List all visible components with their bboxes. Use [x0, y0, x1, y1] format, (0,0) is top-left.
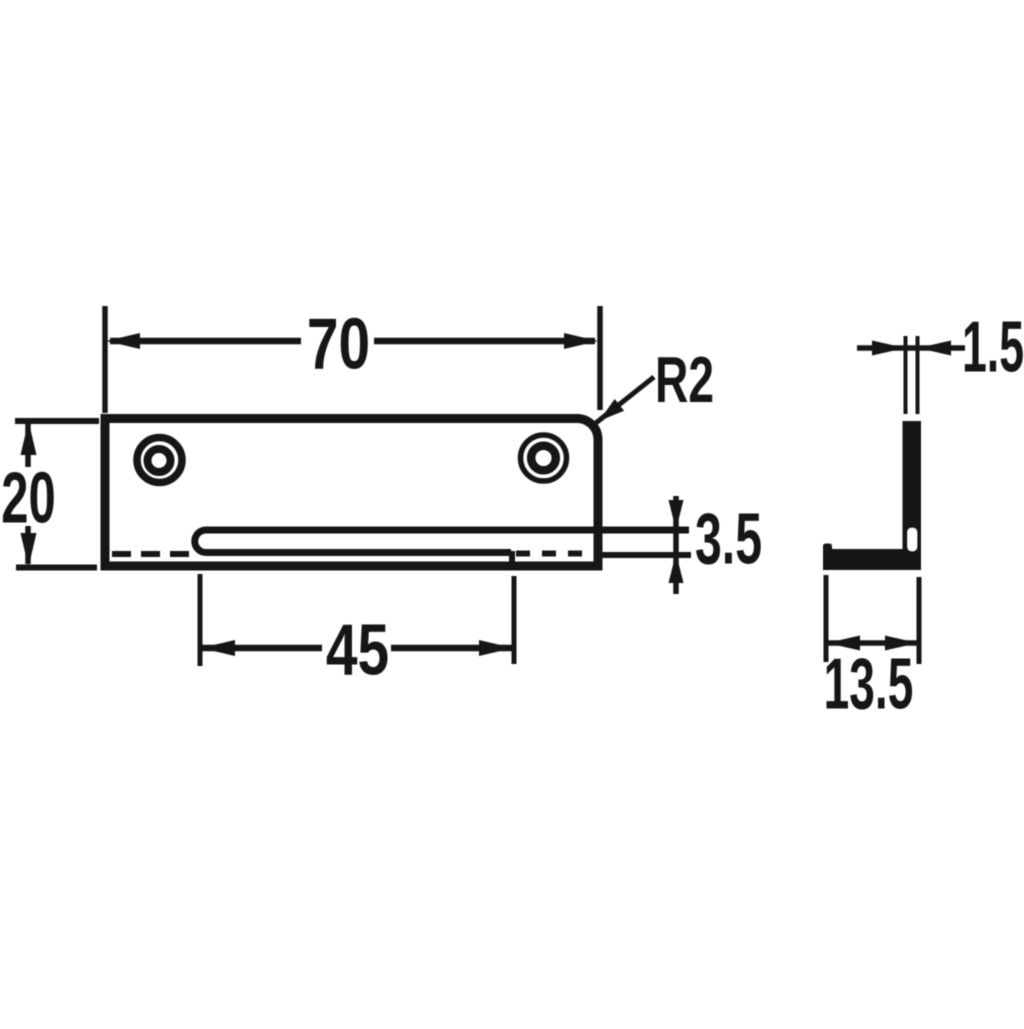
dim 3.5 extension line bottom — [598, 552, 691, 558]
dim 20 extension line top — [15, 418, 99, 424]
dim 45 arrowhead left — [201, 640, 235, 656]
dim 20 extension line bottom — [16, 565, 97, 571]
slot bottom line — [206, 549, 511, 556]
plate outline (front view, rounded corner top-right) — [105, 418, 598, 566]
dim 1.5 arrowhead right-pointing — [872, 341, 905, 356]
dim 20 arrowhead down — [21, 533, 37, 567]
dim 70 extension line left — [102, 306, 108, 413]
svg-text:R2: R2 — [655, 343, 714, 416]
slot right step — [509, 551, 515, 567]
dim 70 line — [110, 338, 595, 345]
svg-text:13.5: 13.5 — [824, 643, 914, 724]
hole left outer circle — [137, 438, 182, 483]
dim 70 extension line right — [597, 306, 603, 410]
dim 3.5 arrowhead up — [669, 553, 684, 583]
hidden bend line dashed right — [516, 551, 584, 557]
side view thickness extension lines — [906, 336, 918, 414]
dim 70 arrowhead right — [564, 333, 598, 349]
dim 1.5 arrowhead left-pointing — [918, 341, 951, 356]
side view slot notch (white) — [908, 528, 918, 551]
R2 leader line — [592, 377, 654, 426]
hole left inner ring — [148, 449, 171, 472]
slot left rounded end — [195, 530, 206, 553]
dim 3.5 arrowhead down — [669, 500, 684, 530]
dim 45 extension line right — [512, 576, 517, 664]
R2 leader arrowhead — [599, 399, 624, 421]
svg-text:1.5: 1.5 — [962, 307, 1024, 388]
hidden bend line dashed left — [112, 551, 197, 557]
hole right inner ring — [531, 446, 556, 471]
svg-text:70: 70 — [307, 303, 370, 384]
dim 13.5 arrowhead right — [885, 636, 918, 651]
dim 13.5 extension line left — [824, 575, 829, 662]
side view vertical leg (1.5 thick) — [903, 421, 922, 551]
dim 70 arrowhead left — [106, 333, 140, 349]
svg-text:45: 45 — [326, 609, 389, 690]
dim 20 arrowhead up — [21, 421, 37, 455]
dim 13.5 line — [827, 640, 918, 646]
dim 20 line — [25, 424, 31, 564]
svg-text:3.5: 3.5 — [695, 499, 762, 579]
side view flange left end tick — [823, 544, 832, 552]
svg-text:20: 20 — [1, 458, 55, 539]
dim 45 arrowhead right — [479, 640, 513, 656]
dim 3.5 arrow line vertical — [673, 496, 679, 594]
dim 1.5 line — [857, 345, 965, 351]
hole right outer circle — [521, 435, 567, 481]
side view bottom flange (13.5 long) — [823, 549, 921, 570]
dim 45 extension line left — [198, 574, 203, 666]
slot top line (extends right as 3.5 extension line) — [205, 527, 689, 534]
dim 13.5 arrowhead left — [827, 636, 860, 651]
dim 45 line — [201, 645, 513, 652]
dim 13.5 extension line right — [917, 577, 922, 664]
